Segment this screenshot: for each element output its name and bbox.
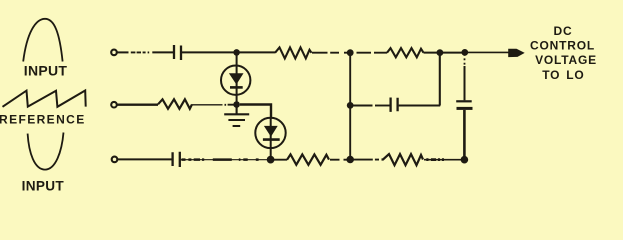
- wire: dash to C3: [375, 105, 390, 107]
- node G: [437, 49, 444, 56]
- wire: R2 to node B thin: [192, 104, 223, 106]
- wire: node B to corner above CR2: [240, 105, 271, 119]
- wire: dash-dot segment: [131, 51, 149, 53]
- sawtooth reference waveform: [3, 91, 86, 107]
- sine input waveform (bottom): [28, 133, 64, 170]
- node J: [461, 156, 469, 164]
- capacitor C1: [174, 45, 181, 60]
- wire: vertical node C to node F: [349, 53, 351, 160]
- sine input waveform (top): [23, 19, 62, 62]
- resistor R5: [382, 154, 424, 165]
- wire: C4 down to node J: [463, 110, 466, 160]
- node E: [267, 156, 275, 164]
- resistor R4: [387, 48, 424, 57]
- diode CR2: [264, 126, 278, 137]
- wire: dash node C to R4: [357, 52, 388, 54]
- wire: dash-dot node F to R5: [354, 159, 380, 161]
- wire: node E to R3: [268, 159, 288, 161]
- wire: C1 to node A: [182, 51, 237, 53]
- node C: [347, 49, 354, 56]
- wire: C3 to corner solid: [399, 105, 441, 107]
- diode CR2 circle: [255, 118, 285, 148]
- svg-text:TO LO: TO LO: [542, 68, 584, 82]
- svg-text:REFERENCE: REFERENCE: [0, 112, 86, 126]
- wire: R5 to node J: [424, 159, 462, 161]
- wire: terminal to C2: [118, 158, 173, 160]
- terminal reference input: [111, 102, 117, 108]
- capacitor C4: [456, 100, 472, 102]
- wire: node H to C3: [350, 105, 372, 107]
- wire: dash-dot into node B: [225, 104, 237, 106]
- wire vertical through diode CR1: [236, 52, 238, 104]
- svg-text:CONTROL: CONTROL: [530, 39, 595, 53]
- wire: R4 to node I: [424, 52, 466, 54]
- wire: dash R3 to node F: [330, 159, 348, 161]
- wire: terminal to dash-dot: [117, 51, 129, 53]
- wire: node I down to C4: [464, 66, 466, 100]
- diode CR1: [229, 73, 244, 84]
- node F: [346, 156, 354, 164]
- svg-text:INPUT: INPUT: [24, 63, 68, 79]
- terminal bottom input: [112, 157, 118, 163]
- arrowhead to DC control voltage: [508, 49, 525, 57]
- wire: thin line C2 to node E: [181, 159, 267, 161]
- terminal top input: [111, 50, 117, 56]
- wire: terminal to R2: [117, 103, 158, 105]
- wire: thick dashes over thin line: [182, 158, 259, 161]
- svg-text:VOLTAGE: VOLTAGE: [535, 53, 597, 67]
- wire: node A to R1: [237, 51, 275, 53]
- node I: [461, 49, 468, 56]
- svg-text:INPUT: INPUT: [22, 179, 65, 194]
- node A: [233, 49, 240, 56]
- wire: node I to arrow: [465, 51, 509, 53]
- resistor R3: [287, 154, 329, 164]
- node H: [347, 102, 354, 109]
- svg-text:DC: DC: [554, 24, 573, 38]
- resistor R1: [275, 47, 312, 58]
- wire vertical through diode CR2: [270, 118, 272, 160]
- capacitor C3: [391, 98, 398, 112]
- diode CR1 circle: [221, 66, 250, 95]
- ground: [224, 105, 249, 127]
- node B: [233, 101, 240, 108]
- wire: dash-dot R1 to node C: [312, 52, 348, 54]
- wire: dotted below node I: [464, 54, 466, 66]
- capacitor C2: [173, 152, 180, 167]
- wire: solid to C1: [152, 51, 173, 53]
- wire: thick blobs R5 to node J: [426, 158, 444, 161]
- resistor R2: [158, 99, 192, 109]
- wire: corner up to node G: [439, 53, 441, 106]
